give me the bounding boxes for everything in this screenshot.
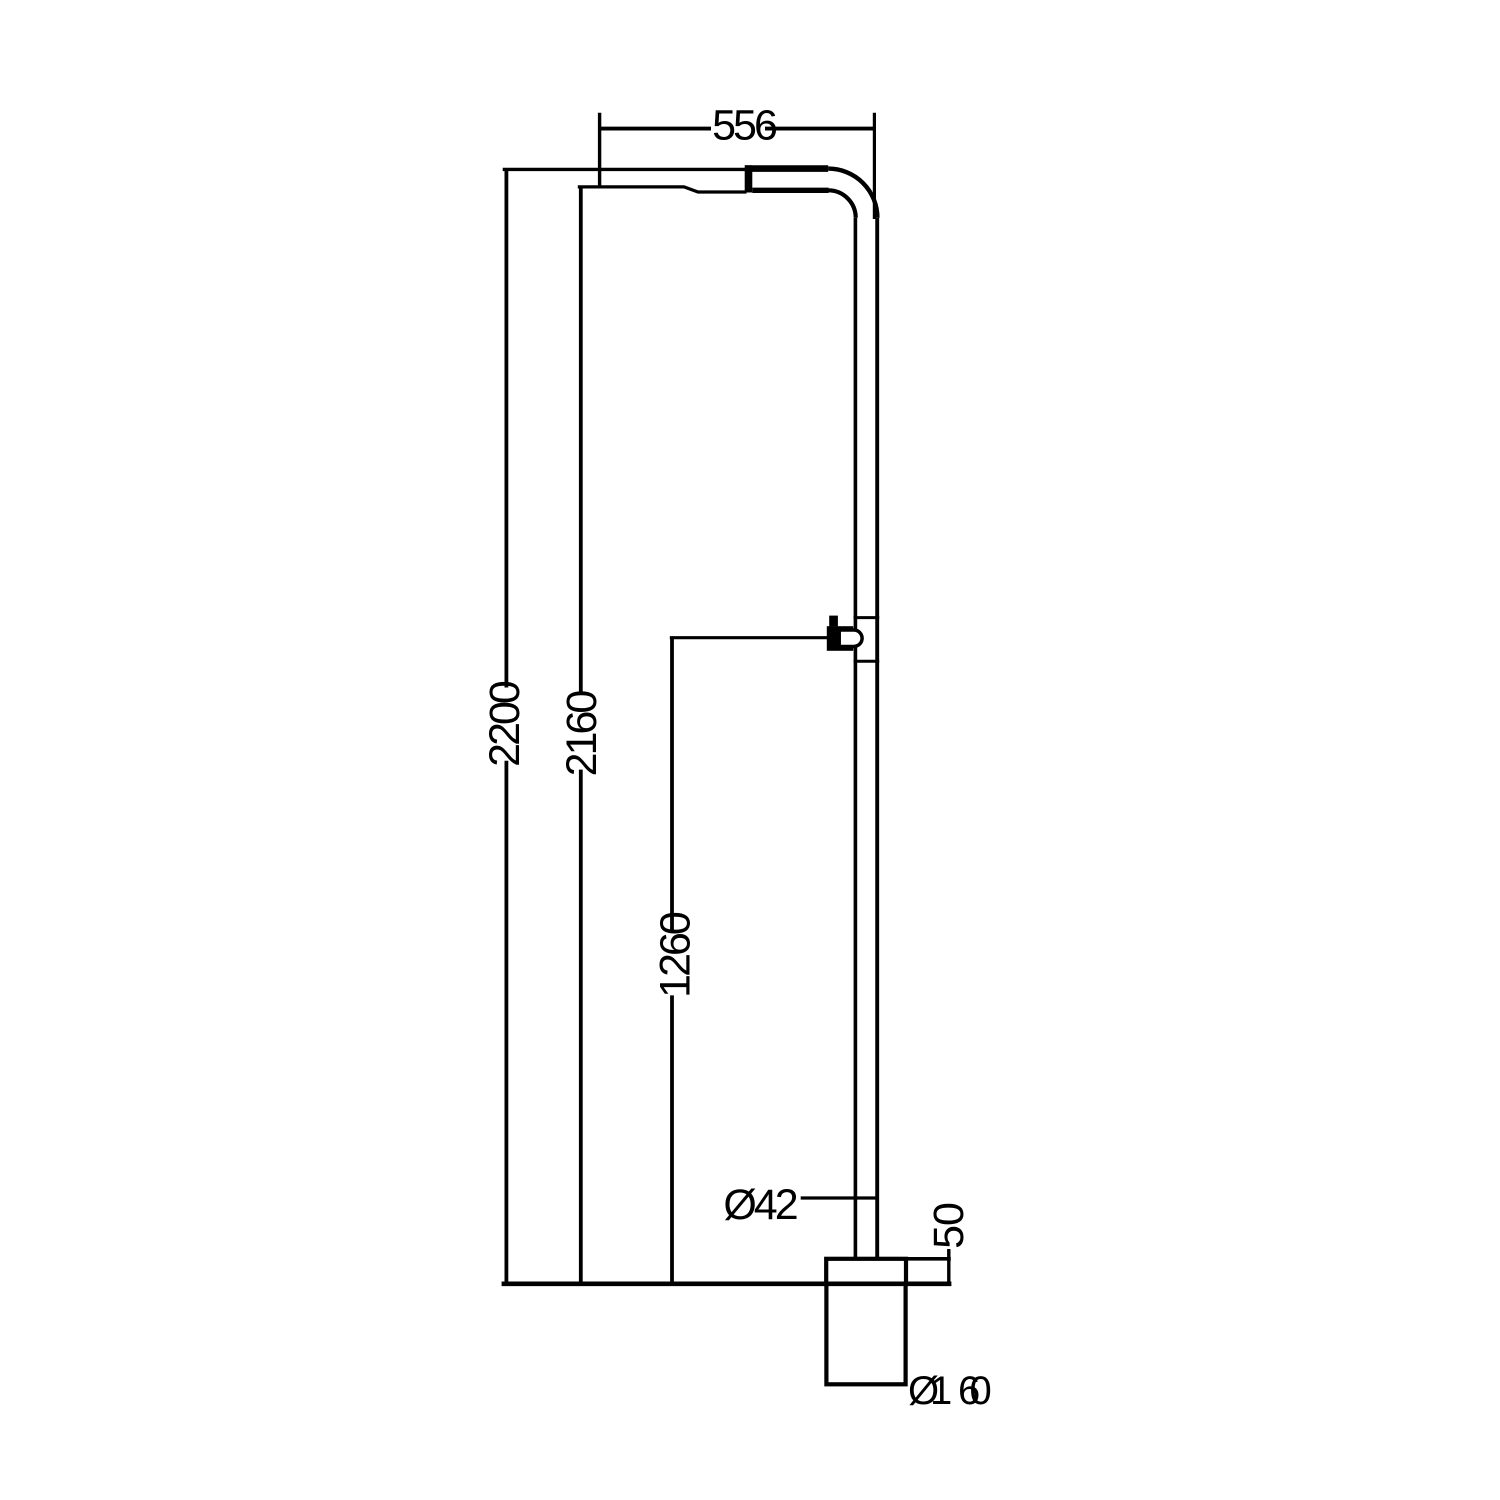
dimension 2200 line lower segment	[504, 761, 508, 1284]
dimension 2160 line lower segment	[579, 770, 583, 1284]
riser pipe lower joint	[854, 660, 880, 663]
dimension 50 extension top	[904, 1257, 951, 1261]
shower arm joint connector	[745, 165, 753, 192]
shower head top edge and 2200 leader	[503, 168, 747, 171]
shower head bottom edge and 2160 leader	[578, 187, 747, 192]
riser pipe left edge	[854, 218, 858, 1259]
riser pipe upper joint	[854, 616, 880, 619]
shower arm top line	[745, 165, 828, 172]
dimension 556 line left segment	[600, 127, 711, 131]
riser pipe right edge	[875, 218, 879, 1259]
dimension 2200 line upper segment	[504, 169, 508, 687]
shower arm bottom line	[752, 188, 828, 193]
dimension 556 extension line left	[598, 113, 601, 187]
dimension 1260 line upper segment	[670, 638, 674, 931]
svg-text:Ø42: Ø42	[723, 1181, 796, 1229]
base flange	[826, 1259, 906, 1284]
diameter 42 leader	[801, 1196, 876, 1199]
svg-text:50: 50	[925, 1203, 973, 1249]
dimension 2160 line upper segment	[579, 187, 583, 695]
shower arm inner bend	[828, 190, 856, 218]
svg-text:Ø160: Ø160	[908, 1369, 992, 1413]
svg-text:2200: 2200	[481, 681, 529, 767]
svg-text:2160: 2160	[558, 691, 606, 777]
floor line	[502, 1282, 952, 1287]
shower arm outer bend	[828, 169, 877, 218]
hand shower holder hook	[839, 630, 862, 646]
dimension 1260 line lower segment	[670, 995, 674, 1283]
dimension 50 line	[947, 1249, 950, 1284]
base cylinder	[826, 1284, 905, 1385]
hand shower holder body	[827, 626, 853, 651]
hand shower holder tab	[829, 616, 838, 627]
svg-text:556: 556	[712, 102, 777, 150]
dimension 1260 leader	[670, 636, 828, 639]
svg-text:1260: 1260	[652, 912, 700, 998]
dimension 556 extension line right	[873, 113, 876, 219]
dimension 556 line right segment	[765, 127, 874, 131]
